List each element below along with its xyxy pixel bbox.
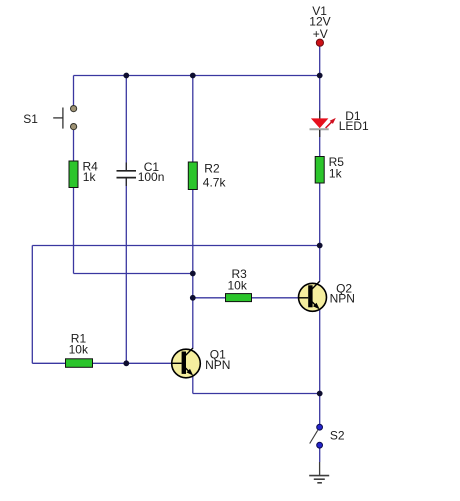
svg-text:S2: S2	[330, 429, 345, 443]
diode D1 LED	[310, 111, 336, 138]
wire top rail	[74, 75, 321, 77]
transistor Q2	[299, 281, 327, 311]
transistor Q1	[172, 348, 201, 378]
power terminal V1 +V	[316, 39, 323, 46]
junction feedback rail / Q2 collector	[317, 243, 323, 249]
svg-text:NPN: NPN	[205, 358, 230, 372]
ground	[309, 462, 329, 483]
junction R4 branch / R2 column	[190, 271, 196, 277]
resistor R2	[188, 162, 197, 190]
wire left column S1/R4 (x=73.5)	[73, 76, 75, 274]
wire feedback rail y=245.5	[32, 245, 319, 247]
resistor R1	[66, 359, 93, 368]
svg-text:10k: 10k	[228, 278, 248, 292]
junction top rail / C1	[123, 73, 129, 79]
wire R3 branch y=297.8	[193, 297, 299, 299]
wire far-left column (x=32.3)	[31, 246, 33, 364]
wire V1 lead down to top rail	[319, 46, 321, 75]
wire R4 bottom to R2 column y=273.5	[74, 273, 193, 275]
svg-text:4.7k: 4.7k	[203, 175, 227, 189]
svg-text:1k: 1k	[329, 166, 343, 180]
wire right column V1/LED/R5/Q2/S2 (x=319.7)	[319, 76, 321, 463]
switch S2	[310, 424, 323, 448]
wire C1 column (x=126.3)	[125, 76, 127, 364]
junction C1 column / Q1 base rail	[123, 360, 129, 366]
capacitor C1	[117, 163, 137, 187]
svg-text:10k: 10k	[69, 342, 89, 356]
wire R2/Q1 column (x=192.8)	[192, 76, 194, 394]
svg-text:LED1: LED1	[339, 119, 369, 133]
svg-text:1k: 1k	[83, 170, 97, 184]
resistor R4	[69, 161, 78, 188]
svg-text:100n: 100n	[138, 170, 165, 184]
svg-text:R2: R2	[204, 161, 220, 175]
wire R1/Q1 base rail y=363.3	[32, 362, 172, 364]
junction top rail / R2	[190, 73, 196, 79]
junction R3 branch / R2 column	[190, 295, 196, 301]
resistor R5	[315, 157, 324, 184]
junction emitter rail / S2 column	[317, 391, 323, 397]
wire Q1 emitter rail y=393.5	[193, 393, 320, 395]
switch S1	[53, 106, 76, 130]
resistor R3	[226, 294, 252, 302]
svg-text:NPN: NPN	[330, 292, 355, 306]
junction top rail / V1	[317, 73, 323, 79]
svg-text:S1: S1	[23, 112, 38, 126]
svg-text:+V: +V	[313, 27, 328, 41]
